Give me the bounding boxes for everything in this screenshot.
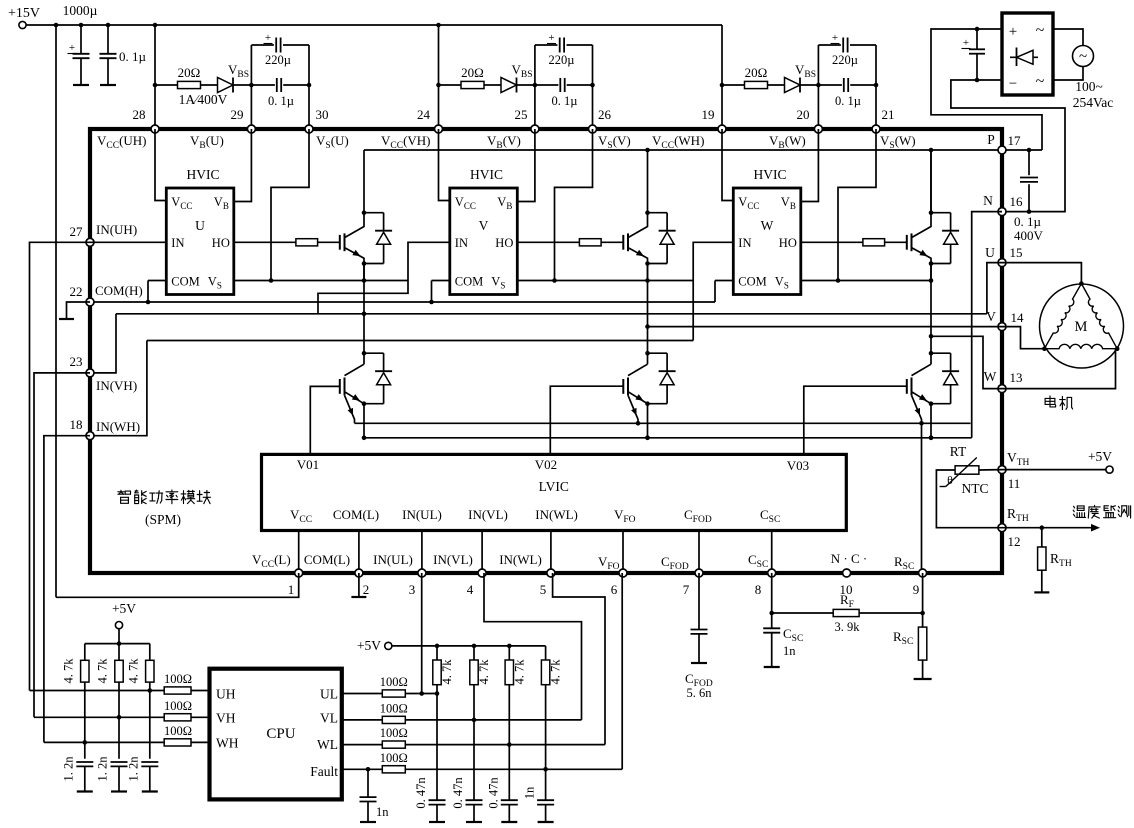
svg-text:IN(VH): IN(VH) xyxy=(96,378,137,393)
svg-text:θ: θ xyxy=(947,473,953,487)
junction emitter QVH xyxy=(645,261,650,266)
svg-text:1n: 1n xyxy=(376,805,389,819)
capacitor filter plates xyxy=(969,48,985,50)
svg-text:30: 30 xyxy=(316,107,329,122)
wire collector to diode DVL xyxy=(648,352,668,354)
wire diode DWH bottom lead xyxy=(950,244,952,263)
wire diode DUH bottom lead xyxy=(383,244,385,263)
capacitor 0.47n WL xyxy=(501,799,518,801)
motor winding left xyxy=(1044,284,1081,349)
wire 20ohm-diode U xyxy=(201,84,218,86)
capacitor 0.47n UL lead2 xyxy=(436,805,438,822)
wire P bus to collector QUH xyxy=(363,150,365,213)
svg-text:220µ: 220µ xyxy=(549,53,575,67)
svg-text:20Ω: 20Ω xyxy=(745,65,768,80)
transistor QUH emitter xyxy=(345,248,365,264)
wire pin2 to ground xyxy=(358,573,360,596)
junction sense W xyxy=(919,421,924,426)
ground bar under 0.1u xyxy=(100,84,116,86)
svg-text:COM: COM xyxy=(171,275,199,289)
pin 17 P xyxy=(998,146,1006,154)
svg-text:0. 1µ: 0. 1µ xyxy=(552,94,578,108)
wire IN(VH) to CPU xyxy=(34,373,90,717)
terminal +15V xyxy=(19,21,26,28)
wire pin-VS via W xyxy=(838,129,876,281)
wire LVIC INWL to pin5 xyxy=(550,531,552,574)
resistor 20ohm W xyxy=(745,81,768,88)
svg-text:17: 17 xyxy=(1008,133,1022,148)
capacitor 1n VFO lead xyxy=(545,769,547,800)
wire diode DVH to emitter xyxy=(648,263,668,265)
junction +5V bus xyxy=(117,641,122,646)
svg-text:0. 47n: 0. 47n xyxy=(486,777,500,809)
wire bootstrap top right U xyxy=(283,44,309,46)
capacitor CFOD xyxy=(691,629,708,631)
resistor 4.7k WL xyxy=(505,660,513,685)
svg-text:V: V xyxy=(479,218,489,233)
wire V02 gate riser xyxy=(550,386,623,454)
terminal +5V left xyxy=(115,622,122,629)
svg-text:N: N xyxy=(983,193,993,208)
pin 1 bottom xyxy=(295,569,303,577)
capacitor 1n fault xyxy=(360,796,377,798)
svg-text:6: 6 xyxy=(611,582,618,597)
emitter arrow QUH xyxy=(352,250,360,257)
capacitor 1.2n VH lead xyxy=(118,766,120,791)
svg-text:1n: 1n xyxy=(783,644,796,658)
capacitor CFOD bottom lead xyxy=(698,634,700,663)
wire emitter to VS line U xyxy=(363,264,365,281)
svg-text:20Ω: 20Ω xyxy=(461,65,484,80)
svg-text:+5V: +5V xyxy=(357,638,381,653)
capacitor 0.1u top lead xyxy=(107,25,109,53)
junction bootstrap node V xyxy=(533,83,538,88)
capacitor 1.2n WH lead xyxy=(84,766,86,791)
junction VS(U) midpoint xyxy=(362,278,367,283)
transistor QVH body bar xyxy=(627,233,629,251)
wire RF right xyxy=(859,612,923,614)
junction RF RSC xyxy=(920,611,925,616)
wire +5V bus right xyxy=(392,645,546,647)
svg-text:20: 20 xyxy=(797,107,810,122)
ground bar under 1000u xyxy=(73,84,89,86)
wire Vcc drop phase U xyxy=(154,25,156,129)
junction UL pin3 xyxy=(419,691,424,696)
pin 8 bottom xyxy=(768,569,776,577)
junction WH pullup xyxy=(83,740,88,745)
resistor 100ohm WH xyxy=(164,739,191,746)
junction emitter QUL xyxy=(362,401,367,406)
wire +5V to bus left xyxy=(118,629,120,661)
wire VS(U) line xyxy=(234,280,408,282)
svg-text:IN(VL): IN(VL) xyxy=(433,552,473,567)
label motor (dianji) xyxy=(1045,396,1073,410)
emitter arrow QUL xyxy=(352,394,360,401)
pin 12 RTH xyxy=(998,524,1006,532)
wire emitter QWL to N bus xyxy=(930,404,932,438)
wire pin-VB to HVIC W xyxy=(801,129,819,202)
pin 21 phase W xyxy=(872,125,880,133)
svg-text:4. 7k: 4. 7k xyxy=(96,658,110,684)
resistor 100ohm UH xyxy=(164,687,191,694)
resistor 4.7k UL top lead xyxy=(436,646,438,660)
pin 20 phase W xyxy=(814,125,822,133)
svg-text:4. 7k: 4. 7k xyxy=(126,658,140,684)
svg-text:0. 1µ: 0. 1µ xyxy=(119,49,147,64)
svg-text:4. 7k: 4. 7k xyxy=(512,659,526,685)
wire diode DWL to emitter xyxy=(931,403,951,405)
junction N bus V xyxy=(645,436,650,441)
ground RTH xyxy=(1034,591,1049,593)
wire bootstrap left vertical V xyxy=(534,45,536,129)
wire UL row xyxy=(405,693,437,695)
capacitor 1.2n VH xyxy=(111,761,128,763)
svg-text:W: W xyxy=(761,218,774,233)
junction N line snubber xyxy=(1027,209,1032,214)
resistor 100ohm WL xyxy=(382,741,405,748)
svg-text:23: 23 xyxy=(70,354,83,369)
svg-text:+: + xyxy=(1009,24,1017,40)
resistor 20ohm V xyxy=(461,81,484,88)
wire +5V bus left xyxy=(85,643,150,645)
svg-text:NTC: NTC xyxy=(962,481,989,496)
transistor QWL kelvin emitter xyxy=(912,395,922,423)
wire diode DWL top lead xyxy=(950,353,952,371)
wire IN(WH) line xyxy=(147,340,693,342)
wire HO to gate res U xyxy=(234,241,296,243)
wire diode DUH to emitter xyxy=(364,263,384,265)
wire COM stub U xyxy=(148,280,166,282)
wire 20ohm-diode V xyxy=(484,84,501,86)
svg-text:IN(VL): IN(VL) xyxy=(468,507,508,522)
label SPM chinese (zhineng gonglv mokuai) xyxy=(118,490,211,504)
svg-text:28: 28 xyxy=(133,107,146,122)
wire COM riser U xyxy=(147,281,149,303)
svg-text:+: + xyxy=(548,32,554,44)
transistor QUL collector diag xyxy=(345,364,365,375)
resistor 4.7k VFO top lead xyxy=(545,646,547,660)
wire IN(WH) from pin 18 xyxy=(90,341,147,436)
svg-text:8: 8 xyxy=(755,582,762,597)
capacitor 0.1u bootstrap U xyxy=(276,78,278,92)
junction N bus W xyxy=(929,436,934,441)
wire pin22 to ground xyxy=(67,302,91,318)
wire bus to R1 xyxy=(84,644,86,661)
svg-text:HO: HO xyxy=(779,236,797,250)
svg-text:CPU: CPU xyxy=(266,726,295,742)
svg-text:0. 1µ: 0. 1µ xyxy=(835,94,861,108)
pin 25 phase V xyxy=(531,125,539,133)
svg-text:HVIC: HVIC xyxy=(187,167,220,182)
wire diode DUL top lead xyxy=(383,353,385,371)
wire gate res to gate V upper xyxy=(601,241,623,243)
svg-text:HVIC: HVIC xyxy=(470,167,503,182)
resistor RF xyxy=(833,609,859,616)
wire bootstrap right vertical W xyxy=(875,45,877,129)
transistor QVH emitter xyxy=(628,248,648,264)
transistor QWH body bar xyxy=(911,233,913,251)
transistor QVL kelvin emitter xyxy=(628,395,638,423)
junction rail drop V xyxy=(436,23,441,28)
wire temperature monitor xyxy=(1002,527,1097,529)
svg-text:COM(L): COM(L) xyxy=(333,507,379,522)
wire 100ohm WH to CPU xyxy=(191,741,210,743)
motor M circle xyxy=(1040,284,1124,368)
junction 20ohm row U xyxy=(153,83,158,88)
junction collector QWH xyxy=(929,210,934,215)
capacitor 0.47n UL xyxy=(429,799,446,801)
wire RSC to ground xyxy=(922,660,924,679)
svg-text:~: ~ xyxy=(1036,22,1045,39)
wire diode DVH bottom lead xyxy=(666,244,668,263)
kelvin arrow QVL xyxy=(631,408,636,416)
wire diode-node W xyxy=(800,84,818,86)
svg-text:5: 5 xyxy=(540,582,547,597)
transistor QUH gate bar xyxy=(339,235,341,250)
diode DVL freewheel xyxy=(659,370,676,372)
pin 29 phase U xyxy=(247,125,255,133)
svg-text:400V: 400V xyxy=(1014,228,1044,243)
junction Fault pullup xyxy=(543,767,548,772)
svg-text:100Ω: 100Ω xyxy=(164,724,192,738)
svg-text:(SPM): (SPM) xyxy=(145,512,181,527)
wire VL from CPU xyxy=(342,719,383,721)
junction 20ohm row W xyxy=(720,83,725,88)
transistor QVH collector xyxy=(628,213,648,238)
rectifier diode bar xyxy=(1016,48,1018,67)
wire LVIC INVL to pin4 xyxy=(481,531,483,574)
resistor 100ohm UL xyxy=(382,690,405,697)
svg-text:V: V xyxy=(986,309,996,324)
wire Fault from CPU xyxy=(342,768,383,770)
capacitor CSC bottom lead xyxy=(771,633,773,667)
pin 5 bottom xyxy=(547,569,555,577)
pin 23 IN(VH) xyxy=(86,369,94,377)
wire Vcc drop phase V xyxy=(438,25,440,129)
wire 20ohm-diode W xyxy=(768,84,785,86)
junction collector QUH xyxy=(362,210,367,215)
svg-text:4. 7k: 4. 7k xyxy=(61,658,75,684)
wire pin9 down xyxy=(922,573,924,627)
wire 100ohm UH to CPU xyxy=(191,690,210,692)
wire COM(H) bus xyxy=(90,301,715,303)
svg-text:WL: WL xyxy=(317,737,338,752)
wire Fault row xyxy=(405,768,622,770)
svg-text:LVIC: LVIC xyxy=(539,479,569,494)
transistor QVL collector stub xyxy=(647,353,649,364)
capacitor snubber bottom lead xyxy=(1028,184,1030,211)
wire collector to diode DWH xyxy=(931,212,951,214)
pin 14 V xyxy=(998,323,1006,331)
wire VL row xyxy=(405,719,581,721)
ground RSC xyxy=(914,678,932,680)
wire to 20ohm V xyxy=(439,84,462,86)
wire WL from CPU xyxy=(342,744,383,746)
svg-text:25: 25 xyxy=(515,107,528,122)
svg-text:IN(WL): IN(WL) xyxy=(535,507,578,522)
wire U to motor xyxy=(1002,263,1081,284)
wire V01 gate riser xyxy=(310,386,340,454)
wire collector to diode DVH xyxy=(648,212,668,214)
wire N emitter bus xyxy=(364,437,972,439)
motor winding bottom xyxy=(1044,344,1117,348)
junction Fault cap xyxy=(366,767,371,772)
svg-text:~: ~ xyxy=(1079,49,1087,65)
wire WH column xyxy=(84,682,86,759)
emitter arrow QVL xyxy=(635,394,643,401)
transistor QVH gate bar xyxy=(622,235,624,250)
wire LVIC CSC to pin8 xyxy=(771,531,773,574)
capacitor 220u V xyxy=(559,38,561,53)
wire WH row xyxy=(44,741,164,743)
svg-text:26: 26 xyxy=(598,107,612,122)
diode VBS U xyxy=(218,78,234,93)
wire COM stub V xyxy=(432,280,450,282)
wire RT to pin12 xyxy=(936,470,1002,528)
wire LVIC VCC to pin1 xyxy=(298,531,300,574)
wire HO to gate res W xyxy=(801,241,863,243)
wire diode DWH to emitter xyxy=(931,263,951,265)
wire bootstrap top right W xyxy=(850,44,876,46)
wire diode-node V xyxy=(517,84,535,86)
svg-text:5. 6n: 5. 6n xyxy=(687,686,713,700)
transistor QUL collector stub xyxy=(363,353,365,364)
wire bootstrap top right V xyxy=(567,44,593,46)
junction bootstrap node U xyxy=(249,83,254,88)
junction collector QWL xyxy=(929,351,934,356)
wire LVIC CFOD to pin7 xyxy=(698,531,700,574)
svg-text:0. 47n: 0. 47n xyxy=(414,777,428,809)
pin 2 bottom xyxy=(355,569,363,577)
resistor 4.7k VFO xyxy=(541,660,549,685)
svg-text:1A∕400V: 1A∕400V xyxy=(179,92,228,107)
op-amp LVIC box xyxy=(262,454,847,530)
wire pin-VB to HVIC U xyxy=(234,129,252,202)
wire 100ohm VH to CPU xyxy=(191,716,210,718)
transistor QWL collector stub xyxy=(930,353,932,364)
wire W midpoint down xyxy=(930,264,932,337)
motor vertex left xyxy=(1042,346,1047,351)
junction rail/1000u xyxy=(79,23,84,28)
transistor QWH collector xyxy=(912,213,932,238)
transistor QWL collector diag xyxy=(912,364,932,375)
wire VL pullup lead xyxy=(473,685,475,720)
junction P bus snubber xyxy=(1027,148,1032,153)
wire to 20ohm W xyxy=(722,84,745,86)
svg-text:U: U xyxy=(195,218,205,233)
svg-text:27: 27 xyxy=(70,224,84,239)
wire VTH to +5V xyxy=(1002,469,1106,471)
resistor RSC xyxy=(918,627,926,660)
wire LVIC INUL to pin3 xyxy=(421,531,423,574)
wire IN(WH) riser xyxy=(693,242,733,340)
wire pin-VS via U xyxy=(271,129,309,281)
capacitor 0.47n UL ground xyxy=(429,821,445,823)
junction 20ohm row V xyxy=(436,83,441,88)
svg-text:24: 24 xyxy=(417,107,431,122)
wire U midpoint vertical xyxy=(363,264,365,354)
svg-text:+: + xyxy=(832,32,838,44)
pin 26 phase V xyxy=(589,125,597,133)
junction U output midpoint xyxy=(362,312,367,317)
wire UH column xyxy=(149,682,151,759)
svg-text:W: W xyxy=(984,369,997,384)
wire collector to diode DUL xyxy=(364,352,384,354)
wire IN(WH) to CPU xyxy=(44,436,90,743)
wire bootstrap right vertical U xyxy=(308,45,310,129)
transistor QWH emitter xyxy=(912,248,932,264)
svg-text:P: P xyxy=(987,132,995,147)
svg-text:IN(UL): IN(UL) xyxy=(373,552,413,567)
terminal +5V right xyxy=(1106,466,1113,473)
ground COM(L) xyxy=(351,596,366,598)
junction VH pullup xyxy=(117,715,122,720)
svg-text:100Ω: 100Ω xyxy=(164,699,192,713)
svg-text:UL: UL xyxy=(320,687,338,702)
capacitor 0.47n WL lead xyxy=(508,745,510,801)
svg-text:3: 3 xyxy=(409,582,416,597)
wire diode DUL to emitter xyxy=(364,403,384,405)
wire Vcc drop phase W xyxy=(721,25,723,129)
capacitor 0.47n UL lead xyxy=(436,694,438,801)
diode VBS V xyxy=(501,78,517,93)
junction emitter QUH xyxy=(362,261,367,266)
svg-text:100~: 100~ xyxy=(1075,79,1103,94)
svg-text:U: U xyxy=(985,245,995,260)
junction VS via W xyxy=(836,278,841,283)
diode DUH freewheel xyxy=(375,230,392,232)
junction emitter QWH xyxy=(929,261,934,266)
junction N bus U xyxy=(362,436,367,441)
wire IN(VH) from pin 23 xyxy=(90,314,116,373)
svg-text:1. 2n: 1. 2n xyxy=(126,756,140,782)
svg-text:HO: HO xyxy=(495,236,513,250)
junction sense V xyxy=(636,421,641,426)
wire 0.1u right W xyxy=(850,84,876,86)
capacitor CSC xyxy=(763,627,780,629)
label temperature monitor chinese (wendu jiance) xyxy=(1073,506,1130,519)
transistor QWL body bar xyxy=(911,378,913,396)
svg-text:4. 7k: 4. 7k xyxy=(440,659,454,685)
junction VS via U xyxy=(269,278,274,283)
junction COM U xyxy=(146,300,151,305)
resistor 4.7k pullup VH xyxy=(115,660,123,682)
capacitor 1000u plates xyxy=(73,53,90,55)
junction filter cap top xyxy=(975,27,980,32)
wire V output line xyxy=(648,326,1003,328)
wire bootstrap top left W xyxy=(818,44,841,46)
svg-text:V01: V01 xyxy=(297,457,319,472)
svg-text:IN(WL): IN(WL) xyxy=(499,552,542,567)
resistor 4.7k pullup UH xyxy=(146,660,154,682)
svg-text:4: 4 xyxy=(467,582,474,597)
svg-text:19: 19 xyxy=(702,107,715,122)
junction rail/0.1u xyxy=(106,23,111,28)
wire emitter to VS line W xyxy=(930,264,932,281)
wire pin-VB to HVIC V xyxy=(517,129,535,202)
capacitor snubber top lead xyxy=(1028,150,1030,175)
wire sense bus xyxy=(355,422,971,424)
svg-text:IN: IN xyxy=(738,236,751,250)
svg-text:2: 2 xyxy=(363,582,370,597)
junction VS(W) midpoint xyxy=(929,278,934,283)
wire HO to gate res V xyxy=(517,241,579,243)
pin 22 COM(H) xyxy=(86,298,94,306)
wire WL row xyxy=(405,744,605,746)
wire V midpoint vertical xyxy=(647,264,649,354)
wire to 20ohm U xyxy=(155,84,178,86)
capacitor 220u W xyxy=(842,38,844,53)
